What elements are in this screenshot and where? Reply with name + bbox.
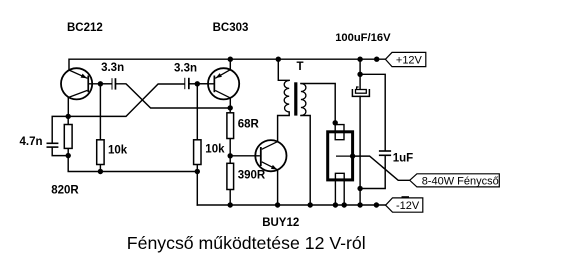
wire tube mid terminal to lamp tag — [336, 156, 410, 180]
svg-text:3.3n: 3.3n — [101, 62, 124, 74]
transformer T core — [294, 82, 297, 115]
svg-text:-12V: -12V — [396, 200, 420, 212]
tube bottom filament — [335, 173, 344, 205]
node BC303 emitter on +12V rail — [228, 57, 233, 62]
node 1uF bottom junction — [357, 186, 362, 191]
wire 10k (2) bottom lead — [196, 165, 198, 172]
wire 10k bottom lead — [99, 165, 101, 172]
svg-text:Fénycső működtetése 12 V-ról: Fénycső működtetése 12 V-ról — [127, 233, 366, 253]
wire 820R top lead — [67, 116, 69, 124]
node 820R bottom — [66, 153, 71, 158]
wire BC303 base node to base bar — [197, 83, 213, 85]
power tag +12V — [385, 52, 425, 66]
capacitor 3.3n (right) — [184, 78, 189, 89]
node tube filament right leg on rail — [342, 202, 347, 207]
wire 390R bottom lead — [229, 190, 231, 206]
capacitor 1uF — [379, 150, 391, 156]
svg-text:100uF/16V: 100uF/16V — [335, 32, 391, 44]
power tag -12V — [386, 196, 423, 212]
wire 100uF cap top lead — [359, 74, 361, 89]
resistor 390R — [227, 163, 234, 189]
node 10k left bottom — [98, 169, 103, 174]
wire 68R top lead — [229, 108, 231, 113]
wire 100uF bottom lead to rail — [359, 96, 361, 205]
node BUY12 emitter on rail — [275, 202, 280, 207]
capacitor 4.7n — [47, 143, 59, 148]
node 100uF branch on +12V rail — [357, 57, 362, 62]
wire BC303 collector lead — [229, 98, 231, 108]
node 100uF / 1uF branch split — [357, 72, 362, 77]
svg-text:BUY12: BUY12 — [262, 217, 299, 229]
wire BUY12 collector to transformer primary — [278, 112, 290, 142]
svg-text:BC303: BC303 — [213, 22, 249, 34]
capacitor 100uF/16V electrolytic — [352, 87, 369, 96]
wire BC303 base node down to R 10k (2) — [196, 84, 198, 140]
resistor 10k (right) — [194, 140, 201, 165]
capacitor 3.3n (left) — [112, 78, 117, 89]
transformer T primary winding — [284, 81, 289, 113]
node transformer primary on +12V rail — [276, 57, 281, 62]
wire BUY12 base lead — [230, 155, 260, 157]
wire 68R bottom lead — [229, 139, 231, 156]
node BC212 collector — [66, 114, 71, 119]
svg-text:820R: 820R — [51, 184, 79, 196]
svg-text:1uF: 1uF — [393, 153, 413, 165]
wire BUY12 emitter lead — [277, 170, 279, 205]
svg-text:10k: 10k — [108, 145, 128, 157]
wire transformer secondary bottom to rail — [301, 116, 310, 206]
svg-text:390R: 390R — [238, 170, 266, 182]
wire C2 to BC303 base node — [190, 83, 198, 85]
node secondary bottom on rail — [308, 202, 313, 207]
node tube top filament — [333, 120, 338, 125]
node 390R on -12V rail — [228, 202, 233, 207]
node BC212 base — [98, 81, 103, 86]
wire bottom return line y171 — [68, 156, 197, 205]
node 10k right bottom — [195, 169, 200, 174]
node tube filament left leg on rail — [333, 202, 338, 207]
resistor 10k (left) — [97, 140, 104, 165]
node terminal dot -12V — [374, 202, 379, 207]
wire top rail +12V — [69, 59, 385, 70]
wire node to 1uF top — [360, 74, 385, 150]
svg-text:10k: 10k — [205, 144, 225, 156]
wire BC212 base node to C1 — [100, 83, 111, 85]
resistor 68R — [227, 113, 234, 139]
wire 1uF bottom to 100uF lead — [360, 156, 385, 189]
wire BC303 emitter lead — [229, 59, 231, 69]
tag 8-40W Fénycső — [410, 174, 500, 188]
wire 100uF top branch — [359, 59, 361, 74]
node terminal dot +12V — [374, 57, 379, 62]
wire BC212 base node down to R 10k — [99, 84, 101, 140]
svg-text:3.3n: 3.3n — [174, 62, 197, 74]
transistor BC212 — [61, 68, 100, 99]
svg-text:68R: 68R — [238, 118, 260, 130]
wire 820R bottom lead — [67, 148, 69, 155]
node 100uF on rail — [357, 202, 362, 207]
wire 390R top lead — [229, 156, 231, 164]
transistor BUY12 — [255, 140, 286, 171]
resistor 820R — [64, 125, 72, 149]
wire C1 cross-coupling diagonal to BC303 collector node — [116, 84, 230, 108]
wire node A to cross-coupling diagonal to C2 — [68, 84, 184, 116]
svg-text:BC212: BC212 — [67, 22, 103, 34]
wire transformer primary top — [278, 59, 289, 80]
tube top filament — [335, 123, 344, 140]
wire transformer secondary top to tube — [301, 84, 335, 123]
transformer T secondary winding — [301, 84, 306, 116]
wire BC212 collector to node A — [67, 98, 69, 117]
fluorescent tube body — [328, 132, 353, 180]
svg-text:T: T — [297, 61, 304, 73]
node BUY12 base — [228, 153, 233, 158]
tube mid terminal line — [336, 155, 353, 157]
node tube mid terminal — [350, 153, 355, 158]
node BC303 base — [195, 81, 200, 86]
node BC303 collector — [228, 105, 233, 110]
wire bottom rail -12V — [197, 204, 385, 206]
wire 4.7n branch top — [52, 116, 68, 142]
svg-text:+12V: +12V — [396, 54, 423, 66]
transistor BC303 — [197, 68, 239, 99]
svg-text:8-40W Fénycső: 8-40W Fénycső — [422, 175, 499, 187]
svg-text:4.7n: 4.7n — [20, 136, 43, 148]
wire 4.7n branch bottom — [52, 148, 68, 156]
